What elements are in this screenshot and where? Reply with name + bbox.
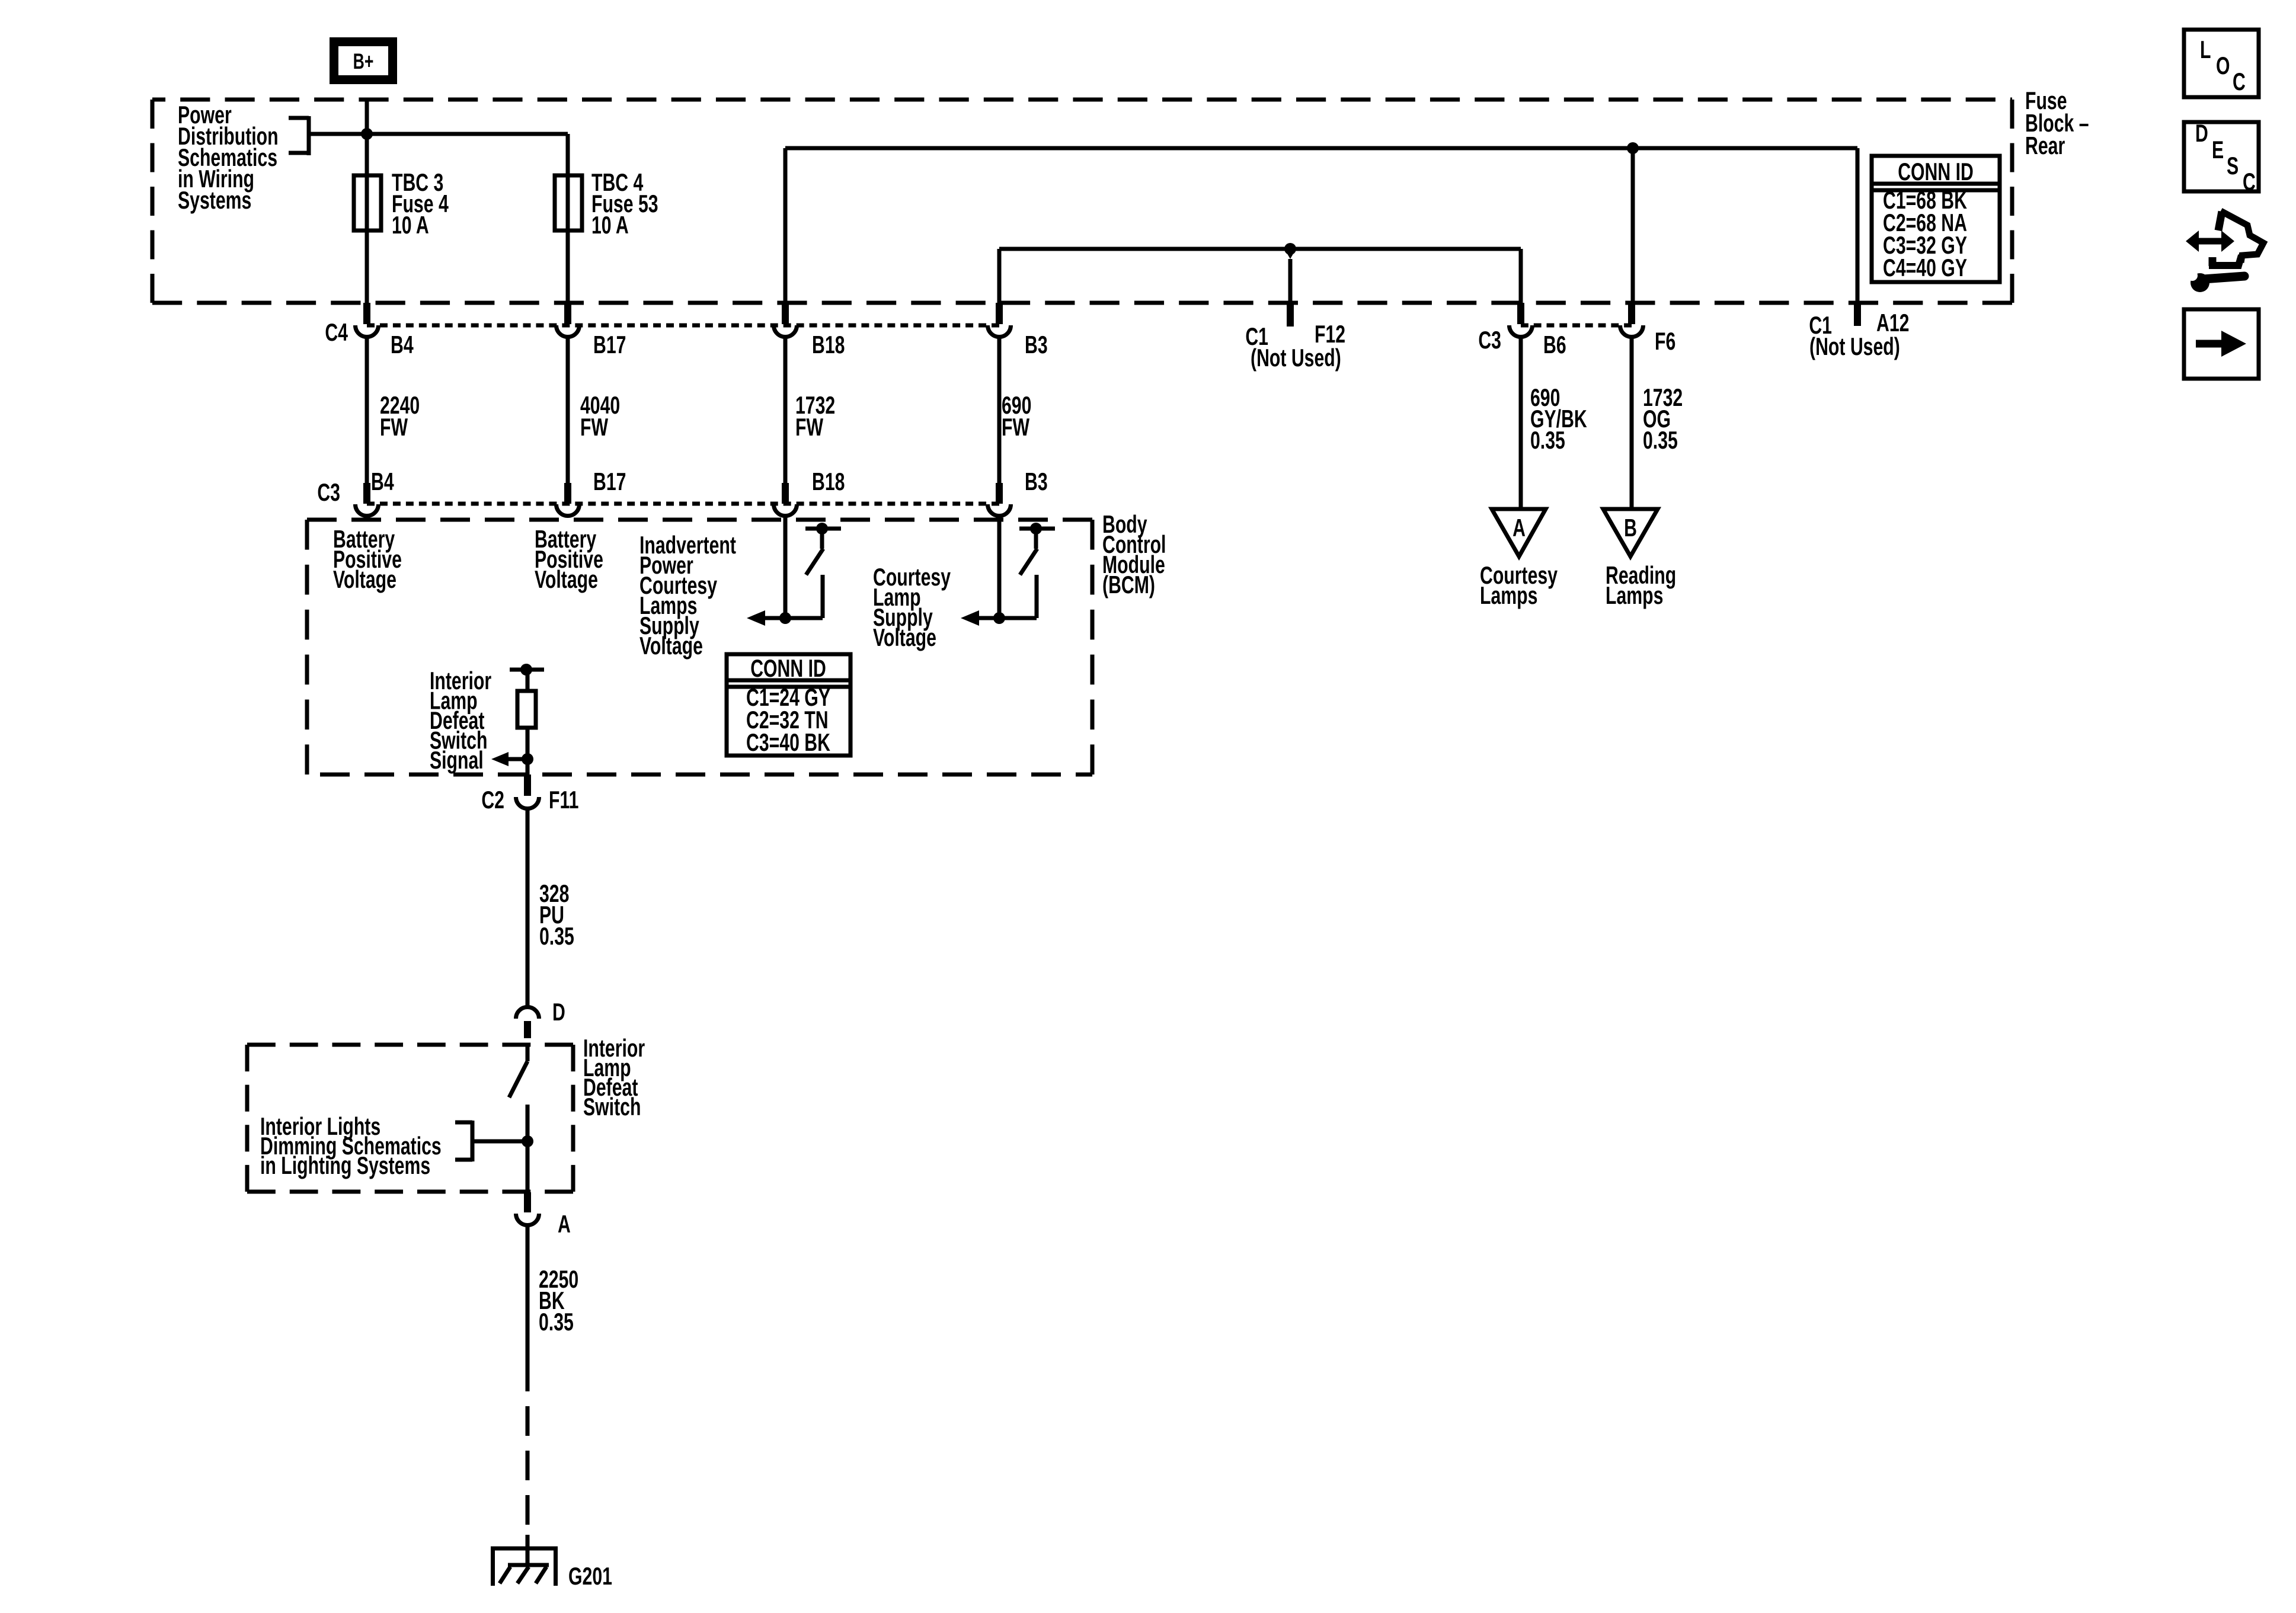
svg-text:Signal: Signal [430,746,484,774]
svg-text:C3=40 BK: C3=40 BK [746,728,830,756]
svg-text:D: D [2195,119,2208,147]
svg-text:C: C [2233,68,2246,95]
svg-text:Rear: Rear [2025,132,2065,159]
svg-text:FW: FW [380,413,408,441]
svg-text:(Not Used): (Not Used) [1809,332,1900,360]
svg-text:0.35: 0.35 [1530,426,1565,454]
svg-text:B3: B3 [1025,468,1048,495]
svg-text:B+: B+ [353,49,374,73]
svg-text:C3: C3 [1478,326,1501,354]
svg-text:0.35: 0.35 [1643,426,1678,454]
svg-text:L: L [2200,36,2211,63]
svg-text:10 A: 10 A [392,211,429,239]
svg-text:FW: FW [1002,413,1029,441]
svg-text:Voltage: Voltage [333,565,396,593]
svg-text:G201: G201 [568,1562,612,1590]
svg-text:C3: C3 [317,478,340,506]
svg-text:C: C [2243,168,2256,196]
svg-text:Voltage: Voltage [639,632,703,660]
svg-text:CONN ID: CONN ID [1898,158,1974,185]
svg-text:B4: B4 [371,468,394,495]
svg-text:B6: B6 [1543,331,1566,359]
svg-text:D: D [552,998,565,1026]
svg-text:O: O [2216,52,2230,79]
svg-text:Voltage: Voltage [535,565,598,593]
svg-text:A: A [558,1210,571,1238]
svg-text:Switch: Switch [583,1093,641,1121]
svg-text:FW: FW [795,413,823,441]
svg-text:A: A [1512,514,1526,542]
svg-text:0.35: 0.35 [539,1308,574,1336]
svg-text:C4: C4 [325,318,348,346]
svg-text:F6: F6 [1655,327,1675,355]
svg-text:Systems: Systems [178,186,251,214]
svg-text:in Lighting Systems: in Lighting Systems [260,1151,430,1179]
svg-text:C2: C2 [481,786,504,814]
svg-text:FW: FW [580,413,608,441]
svg-text:B4: B4 [391,331,414,359]
svg-text:E: E [2212,136,2224,164]
svg-text:CONN ID: CONN ID [750,654,826,682]
svg-text:0.35: 0.35 [539,922,574,950]
svg-text:S: S [2227,152,2239,180]
svg-text:B3: B3 [1025,331,1048,359]
svg-text:C4=40 GY: C4=40 GY [1883,254,1967,281]
svg-text:B17: B17 [593,468,626,495]
svg-text:B17: B17 [593,331,626,359]
svg-text:B: B [1624,514,1637,542]
svg-text:Lamps: Lamps [1606,581,1663,609]
svg-text:B18: B18 [812,331,845,359]
svg-text:B18: B18 [812,468,845,495]
svg-text:F11: F11 [549,786,578,814]
svg-text:Lamps: Lamps [1480,581,1537,609]
svg-text:10 A: 10 A [591,211,629,239]
svg-text:Voltage: Voltage [873,623,936,651]
svg-text:(Not Used): (Not Used) [1251,344,1341,372]
svg-text:(BCM): (BCM) [1102,571,1155,599]
